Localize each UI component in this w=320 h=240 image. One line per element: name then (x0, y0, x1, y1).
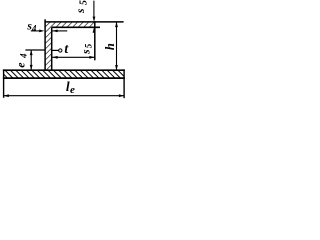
dimension s4 left line (31, 30, 40, 32)
dimension l right arrowhead (119, 94, 124, 97)
bottom plate left end + extension down (3, 69, 5, 97)
dimension e4 top arrowhead (up) (30, 50, 33, 55)
dimension t right arrowhead (89, 56, 94, 59)
dimension s4 left arrowhead (39, 30, 44, 33)
dimension t left arrowhead (52, 56, 57, 59)
top flange bottom edge (52, 26, 100, 28)
dimension s4 right arrowhead (52, 30, 57, 33)
dimension s4 right line (52, 30, 67, 32)
reference line right of web (52, 49, 58, 51)
top flange top edge + h extension line (44, 21, 123, 23)
top flange right end line + extension down (94, 21, 96, 60)
bottom plate right end + extension down (123, 69, 125, 98)
dimension l line (4, 95, 125, 97)
dimension e4 line (30, 50, 32, 70)
dimension h top arrowhead (up) (115, 22, 118, 27)
bottom plate top edge (3, 69, 125, 71)
bottom plate bottom edge (3, 77, 125, 79)
dimension e4 bottom arrowhead (down) (30, 65, 33, 70)
dimension s5 upper tail line (93, 1, 95, 18)
dimension s5 bottom arrowhead (up) (93, 28, 96, 33)
dimension h line (116, 22, 118, 70)
dimension t line (52, 56, 94, 58)
dimension s5 top arrowhead (down) (93, 17, 96, 22)
reference point circle (59, 49, 62, 52)
bottom plate body hatched (4, 70, 125, 78)
reference line left of web (25, 49, 44, 51)
web left edge (44, 19, 46, 70)
dimension l left arrowhead (4, 94, 9, 97)
dimension h bottom arrowhead (down) (115, 65, 118, 70)
T-profile body (web + top flange) hatched (45, 22, 95, 70)
svg-text:h: h (103, 43, 117, 50)
web right edge (51, 27, 53, 70)
